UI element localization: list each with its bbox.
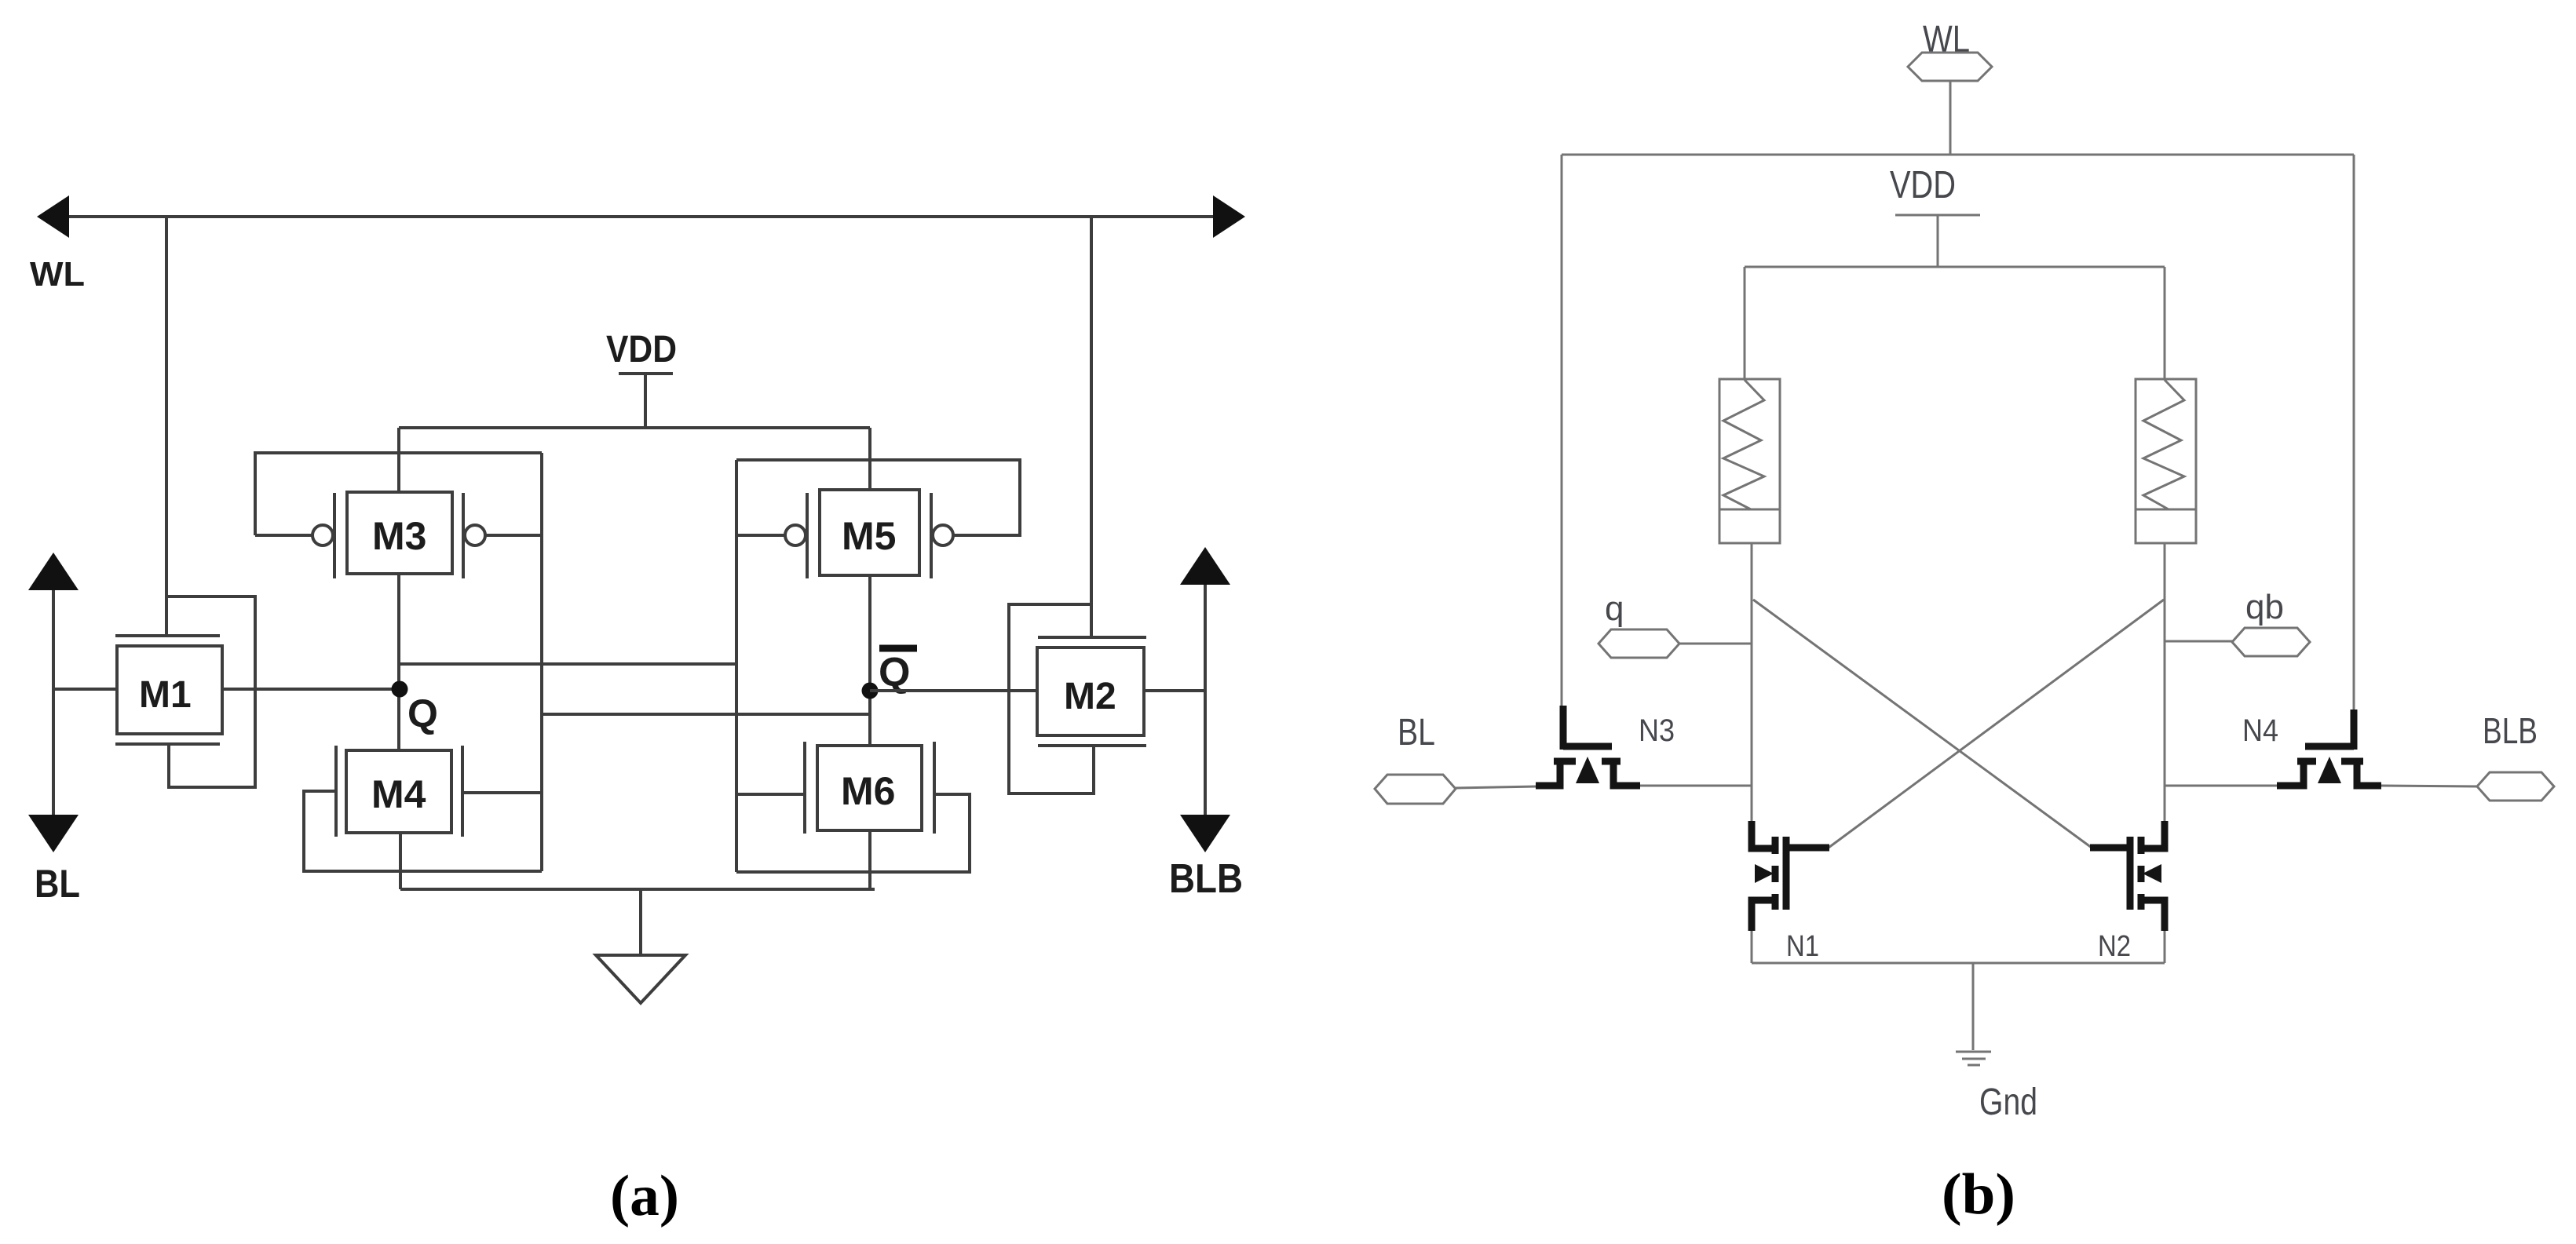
svg-text:M4: M4: [371, 772, 426, 816]
label BLB: [1169, 856, 1243, 902]
svg-text:M5: M5: [842, 514, 896, 558]
transistor N3: [1536, 706, 1675, 786]
svg-text:BL: BL: [35, 862, 80, 906]
wire N3 drain to q: [1640, 785, 1752, 787]
BL down arrowhead: [28, 815, 79, 852]
svg-text:BLB: BLB: [2483, 710, 2538, 751]
wire M2 to BLB: [1145, 689, 1205, 692]
svg-text:N1: N1: [1786, 930, 1819, 963]
wire right-inverter gate vertical: [735, 460, 738, 872]
wire M5 left gate: [736, 534, 785, 537]
wire BLB vertical: [1204, 583, 1207, 816]
node Q: [392, 681, 438, 736]
wire WL horizontal line: [69, 215, 1215, 218]
svg-text:WL: WL: [30, 255, 85, 294]
wire VDD rail (b): [1745, 266, 2165, 268]
transistor M1: [115, 636, 222, 744]
wire cross-couple qb to N1 gate: [1829, 600, 2164, 848]
wire cross-couple q to N2 gate: [1753, 600, 2092, 848]
svg-text:BLB: BLB: [1169, 856, 1243, 902]
resistor R2 (memristor): [2136, 379, 2196, 543]
port q: [1599, 589, 1752, 658]
svg-text:VDD: VDD: [1890, 164, 1956, 206]
wire WL right drop to N4 gate: [2353, 155, 2355, 713]
wire M6 source to ground rail: [868, 830, 871, 889]
svg-text:N2: N2: [2098, 930, 2131, 963]
transistor N1: [1752, 821, 1829, 963]
svg-text:Q: Q: [879, 650, 910, 695]
WL right arrowhead: [1213, 195, 1245, 238]
ground symbol (a): [596, 889, 685, 1003]
wire VDD rail to R1: [1744, 267, 1746, 379]
transistor M2: [1037, 637, 1146, 746]
svg-text:q: q: [1605, 589, 1624, 628]
label WL: [30, 255, 85, 294]
svg-text:(b): (b): [1942, 1162, 2015, 1227]
wire BL to M1: [53, 688, 117, 691]
wire M3 left gate: [255, 534, 312, 537]
wire VDD rail elbow to M5: [868, 428, 871, 490]
wire N2 source to rail: [2164, 931, 2166, 963]
wire ground rail (b): [1752, 962, 2165, 965]
WL left arrowhead: [37, 195, 69, 238]
wire M1 gate loop: [166, 596, 255, 787]
svg-text:M3: M3: [372, 514, 426, 558]
port WL (b): [1908, 19, 1992, 155]
wire VDD rail: [399, 426, 870, 429]
wire M3 drain to Q: [397, 574, 400, 750]
wire WL to M2 gate: [1090, 217, 1093, 637]
wire M4 left gate loop: [304, 791, 542, 871]
wire WL to M1 gate: [165, 217, 168, 636]
svg-text:(a): (a): [610, 1164, 679, 1228]
transistor M4: [336, 746, 462, 837]
BLB up arrowhead: [1180, 547, 1230, 585]
caption (b): [1942, 1162, 2015, 1227]
resistor R1 (memristor): [1719, 379, 1780, 543]
svg-text:qb: qb: [2245, 588, 2284, 626]
caption (a): [610, 1164, 679, 1228]
power VDD (b): [1890, 164, 1980, 267]
svg-text:BL: BL: [1398, 712, 1435, 753]
wire Q cross-couple to right gates: [399, 662, 736, 666]
wire qb to N4 drain: [2165, 785, 2277, 787]
wire BL vertical: [52, 587, 55, 819]
wire left gates cross-couple to Qbar: [542, 713, 870, 716]
wire M2 gate loop: [1009, 604, 1094, 793]
wire M3 gate loop top: [255, 453, 542, 535]
wire M6 left gate: [736, 793, 805, 796]
wire WL left drop to N3 gate: [1561, 155, 1563, 709]
BLB down arrowhead: [1180, 815, 1230, 852]
wire M6 gate loop: [736, 794, 970, 872]
wire M3 right gate: [485, 534, 542, 537]
svg-text:Q: Q: [407, 691, 438, 735]
svg-text:N4: N4: [2242, 713, 2278, 748]
wire M5 drain to Qbar: [868, 575, 871, 746]
svg-text:M2: M2: [1064, 676, 1116, 717]
svg-text:M6: M6: [841, 769, 895, 813]
wire M4 right gate: [462, 791, 542, 794]
wire ground rail (a): [400, 888, 875, 891]
port BLB (b): [2477, 710, 2554, 801]
wire node q vertical: [1751, 543, 1753, 821]
wire N1 source to rail: [1751, 931, 1753, 963]
port BL (b): [1375, 712, 1537, 804]
BL up arrowhead: [28, 553, 79, 590]
port qb: [2165, 588, 2310, 656]
wire M1 to node Q: [221, 688, 399, 691]
transistor N4: [2242, 710, 2381, 786]
svg-text:VDD: VDD: [606, 329, 677, 370]
transistor M3: [312, 492, 485, 578]
wire M3 source to VDD rail: [397, 428, 400, 492]
wire N4 source to BLB: [2381, 786, 2477, 786]
node Qbar: [862, 648, 918, 699]
transistor N2: [2090, 821, 2165, 963]
transistor M6: [805, 742, 934, 834]
svg-text:Gnd: Gnd: [1979, 1082, 2037, 1123]
wire Qbar to M2: [870, 689, 1039, 692]
svg-text:M1: M1: [139, 674, 192, 716]
wire M5 gate loop top: [736, 460, 1020, 535]
wire WL rail (b): [1562, 154, 2354, 156]
wire node qb vertical: [2164, 543, 2166, 821]
svg-text:N3: N3: [1639, 713, 1675, 748]
wire R2 drop: [2164, 267, 2166, 379]
ground Gnd symbol: [1956, 963, 2037, 1123]
power VDD: [606, 329, 677, 428]
wire M4 source to ground rail: [399, 833, 402, 889]
wire left-inverter gate vertical: [540, 453, 543, 871]
transistor M5: [785, 490, 953, 578]
svg-text:WL: WL: [1923, 19, 1970, 60]
label BL: [35, 862, 80, 906]
